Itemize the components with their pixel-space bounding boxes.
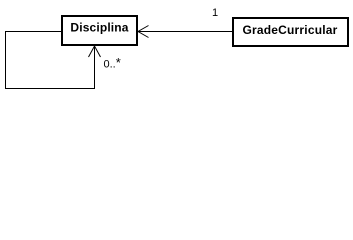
svg-text:GradeCurricular: GradeCurricular	[242, 23, 337, 37]
svg-text:1: 1	[212, 7, 218, 19]
svg-text:Disciplina: Disciplina	[70, 20, 128, 34]
